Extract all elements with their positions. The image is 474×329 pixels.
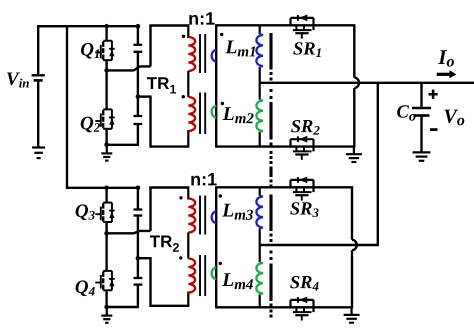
svg-text:n:1: n:1 bbox=[190, 169, 217, 189]
svg-text:n:1: n:1 bbox=[188, 9, 215, 29]
